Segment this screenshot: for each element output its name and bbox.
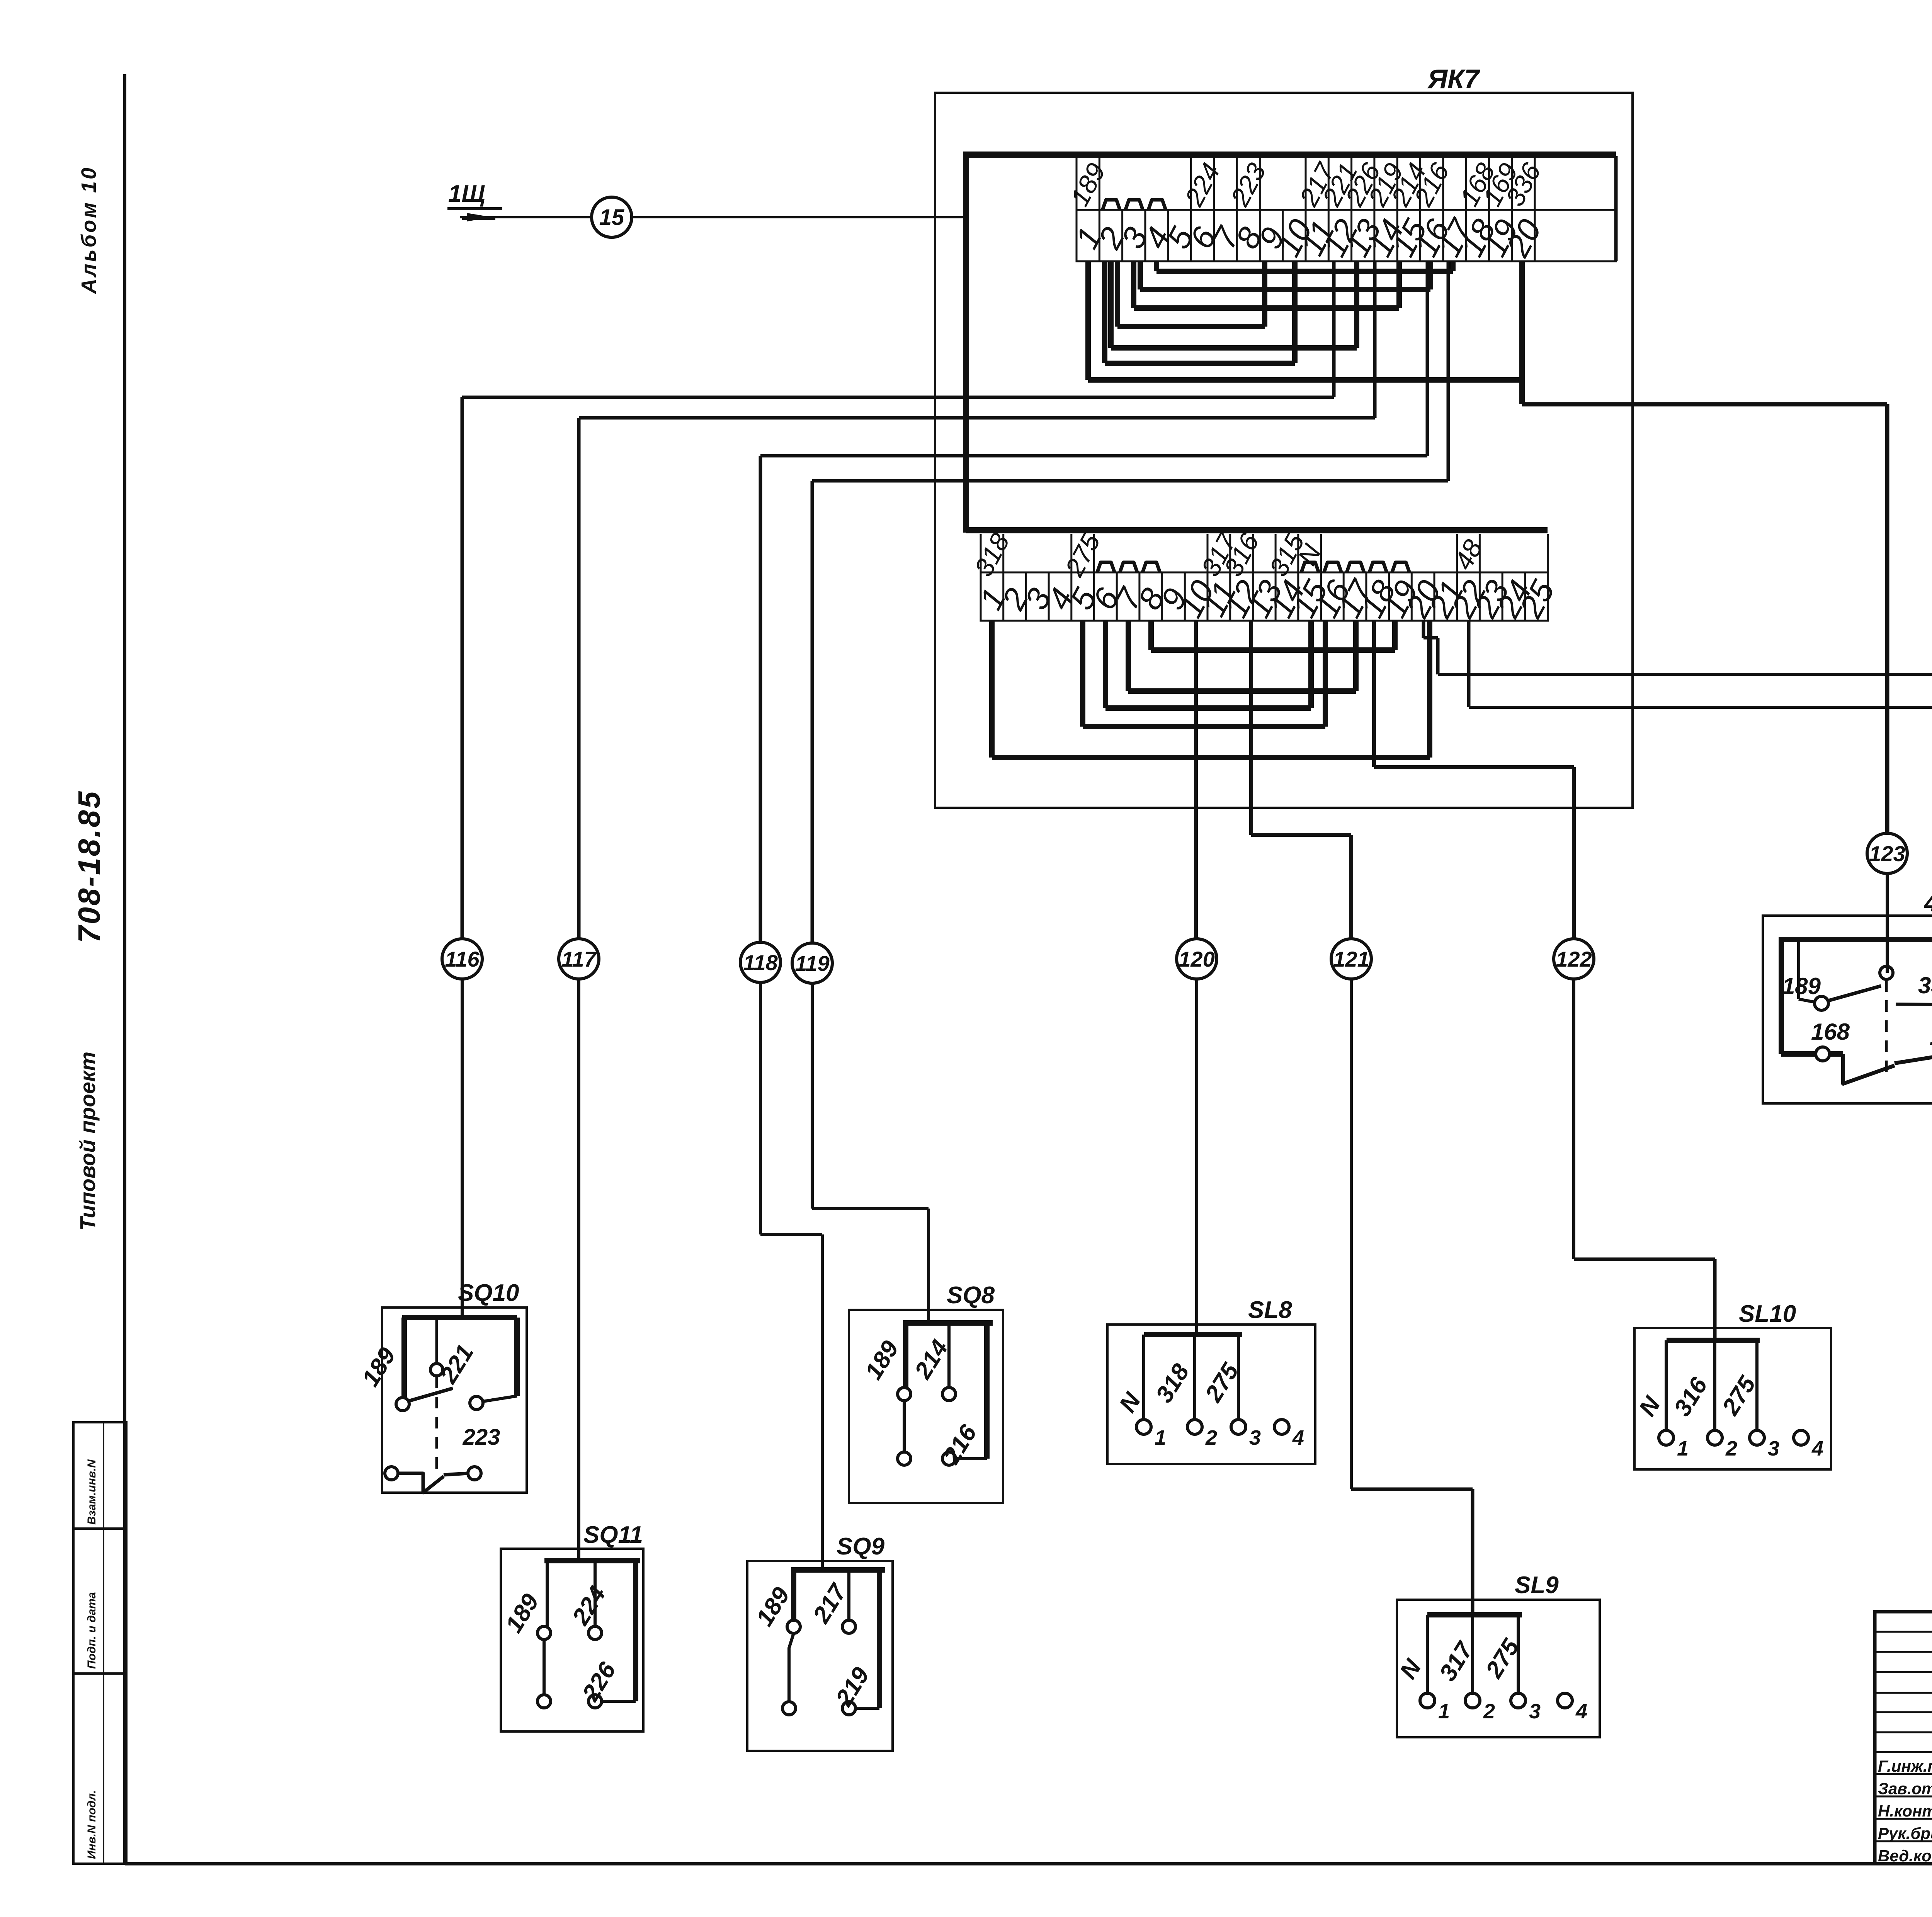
svg-text:116: 116 <box>445 947 480 971</box>
svg-text:1: 1 <box>1438 1700 1450 1723</box>
svg-text:4: 4 <box>1292 1426 1304 1449</box>
svg-text:224: 224 <box>567 1582 611 1630</box>
svg-text:SQ11: SQ11 <box>583 1522 643 1548</box>
svg-text:Взам.инв.N: Взам.инв.N <box>85 1459 98 1525</box>
svg-text:214: 214 <box>909 1335 953 1384</box>
svg-text:189: 189 <box>357 1343 401 1391</box>
svg-text:3: 3 <box>1768 1437 1779 1460</box>
svg-text:N: N <box>1114 1388 1146 1417</box>
svg-text:189: 189 <box>860 1336 904 1384</box>
svg-text:4: 4 <box>1575 1700 1587 1723</box>
svg-text:ЯК7: ЯК7 <box>1427 64 1480 94</box>
svg-text:4-SQ2: 4-SQ2 <box>1923 889 1932 917</box>
svg-text:3: 3 <box>1529 1700 1541 1723</box>
svg-text:Типовой проект: Типовой проект <box>75 1052 100 1231</box>
svg-text:1: 1 <box>1155 1426 1166 1449</box>
svg-text:221: 221 <box>435 1340 479 1388</box>
svg-text:275: 275 <box>1717 1371 1761 1420</box>
svg-text:316: 316 <box>1669 1373 1713 1421</box>
svg-text:219: 219 <box>830 1663 874 1711</box>
svg-text:224: 224 <box>1179 158 1226 211</box>
svg-text:N: N <box>1395 1655 1427 1684</box>
svg-text:169: 169 <box>1930 1024 1932 1050</box>
svg-text:2: 2 <box>1205 1426 1217 1449</box>
svg-text:SQ8: SQ8 <box>947 1282 995 1309</box>
svg-text:Н.контр.: Н.контр. <box>1878 1802 1932 1820</box>
svg-text:Зав.отд: Зав.отд <box>1878 1779 1932 1798</box>
svg-text:2: 2 <box>1725 1437 1737 1460</box>
svg-text:Рук.бриг.: Рук.бриг. <box>1878 1824 1932 1842</box>
svg-text:117: 117 <box>561 947 597 971</box>
svg-text:223: 223 <box>463 1425 500 1450</box>
svg-text:48: 48 <box>1449 535 1488 575</box>
svg-text:336: 336 <box>1918 972 1932 998</box>
svg-text:121: 121 <box>1333 947 1369 971</box>
svg-text:SL8: SL8 <box>1248 1297 1292 1323</box>
svg-text:N: N <box>1634 1392 1666 1421</box>
svg-text:SQ10: SQ10 <box>458 1280 519 1306</box>
svg-text:Альбом 10: Альбом 10 <box>77 166 100 295</box>
svg-text:223: 223 <box>1225 158 1272 211</box>
svg-text:318: 318 <box>1151 1359 1195 1408</box>
svg-text:120: 120 <box>1179 947 1214 971</box>
svg-text:1: 1 <box>1677 1437 1689 1460</box>
svg-text:Г.инж.пр: Г.инж.пр <box>1878 1757 1932 1775</box>
svg-text:708-18.85: 708-18.85 <box>72 790 106 943</box>
svg-text:2: 2 <box>1483 1700 1495 1723</box>
svg-text:15: 15 <box>599 205 624 230</box>
svg-text:1Щ: 1Щ <box>448 180 485 207</box>
svg-text:275: 275 <box>1059 528 1106 581</box>
svg-text:118: 118 <box>743 950 778 975</box>
svg-text:168: 168 <box>1811 1019 1850 1045</box>
svg-text:189: 189 <box>1782 973 1821 999</box>
svg-text:SL9: SL9 <box>1515 1572 1559 1599</box>
svg-text:3: 3 <box>1249 1426 1261 1449</box>
svg-text:Вед.конст: Вед.конст <box>1878 1847 1932 1865</box>
svg-text:SQ9: SQ9 <box>837 1533 885 1560</box>
svg-text:SL10: SL10 <box>1739 1301 1796 1327</box>
svg-text:122: 122 <box>1556 947 1592 971</box>
svg-text:Подп. и дата: Подп. и дата <box>85 1592 98 1669</box>
svg-text:4: 4 <box>1811 1437 1823 1460</box>
svg-text:Инв.N подл.: Инв.N подл. <box>85 1790 98 1859</box>
svg-text:119: 119 <box>795 951 829 976</box>
svg-text:123: 123 <box>1869 841 1905 866</box>
svg-text:226: 226 <box>577 1658 621 1706</box>
